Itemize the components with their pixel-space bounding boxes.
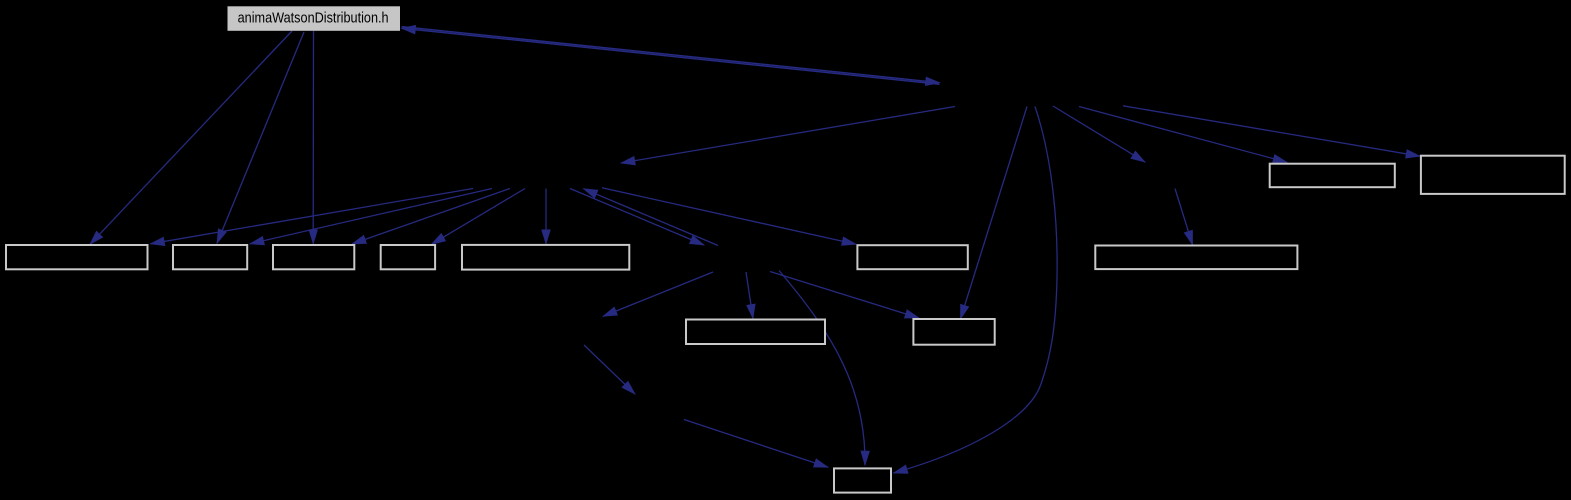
wire N0 to box C [312,31,314,244]
wire hub2 to hub3 [570,189,704,246]
wire hub3 to box H [746,272,753,318]
wire N0 to box B [217,32,304,243]
wire hub1 to box I [961,107,1028,319]
node box I [913,319,994,345]
wire hub2 to box C [352,189,510,245]
wire hub1 to N0 (return) [402,28,940,84]
node box K [1270,164,1395,188]
wire N0 to box A [90,31,292,244]
wire hub2 to box E [545,189,547,244]
wire hub3 to hub4 [603,272,713,316]
wire hub5 to box J [684,420,828,468]
node box F [857,245,967,269]
node box G [1095,246,1297,270]
node box L [1421,156,1565,194]
wire hub2 to box F [602,188,856,244]
node box A [6,245,148,269]
node box B [173,245,247,269]
wire hub2 to box B [250,189,492,244]
wire hub4 to hub5 [584,345,635,394]
wire hub1 to hub6 [1053,106,1145,162]
wire hub2 to box A [151,189,474,244]
node animaWatsonDistribution.h [228,6,401,31]
wire N0 to hub1 (outbound) [402,27,940,83]
svg-text:animaWatsonDistribution.h: animaWatsonDistribution.h [238,10,389,26]
node box H [686,320,825,345]
wire hub6 to box G [1175,189,1193,245]
wire hub3 to box J (curve) [779,271,865,466]
wire hub1 to box L [1123,106,1420,156]
wire hub3 to box I [770,272,919,319]
wire hub3 to hub2 [584,189,719,246]
node box J [834,468,891,492]
wire hub1 to box J (long curve) [894,107,1058,474]
wire hub2 to box D [432,189,526,245]
node box D [381,245,435,269]
wire hub1 to hub2 [621,107,955,164]
node box E [462,245,629,270]
node box C [273,245,354,269]
wire hub1 to box K [1079,107,1287,163]
